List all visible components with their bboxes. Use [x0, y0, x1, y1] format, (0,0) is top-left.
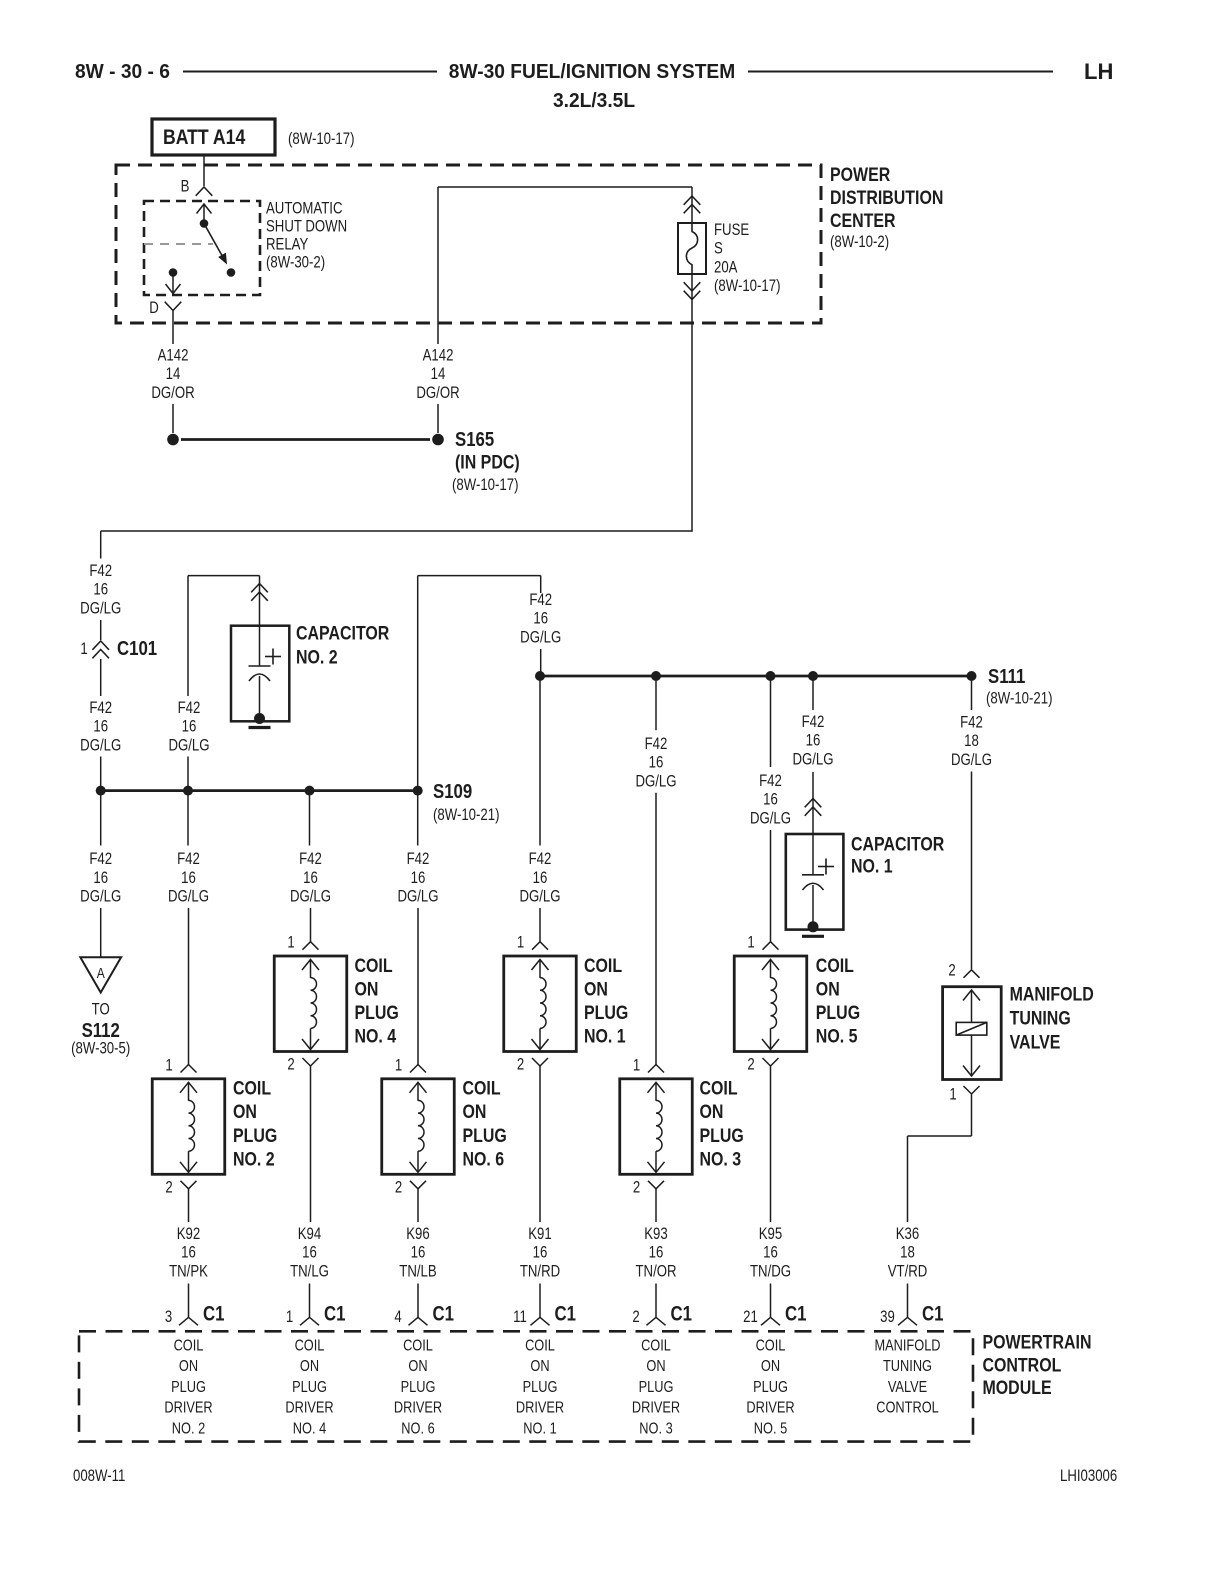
- terminal D connector: [165, 302, 182, 311]
- wire coil1 label to connector: [539, 908, 541, 942]
- svg-text:BATT A14: BATT A14: [163, 126, 245, 150]
- svg-text:16: 16: [533, 1243, 548, 1262]
- wire S109 to coil4 label: [309, 791, 311, 846]
- svg-text:K92: K92: [177, 1225, 200, 1244]
- capacitor C1 ground bar: [802, 935, 824, 938]
- splice S165 bus: [181, 438, 430, 441]
- svg-text:(8W-10-21): (8W-10-21): [986, 689, 1053, 708]
- svg-text:COIL: COIL: [700, 1077, 738, 1099]
- wire link up: [417, 576, 419, 791]
- svg-text:2: 2: [632, 1308, 639, 1327]
- svg-text:NO. 5: NO. 5: [754, 1420, 787, 1438]
- wire fuse down: [691, 274, 693, 532]
- svg-text:A142: A142: [423, 346, 454, 365]
- svg-text:16: 16: [93, 580, 108, 599]
- svg-text:16: 16: [181, 868, 196, 887]
- wire S111 to coil3 label: [655, 676, 657, 730]
- svg-text:PLUG: PLUG: [639, 1379, 674, 1397]
- connector C1 pin 4: [409, 1317, 428, 1325]
- svg-text:DG/LG: DG/LG: [520, 628, 561, 647]
- fuse input double chevron: [684, 196, 701, 205]
- coil on plug no. 4 winding: [310, 960, 312, 978]
- coil on plug no. 3 box: [620, 1079, 693, 1175]
- coil on plug no. 4 pin 2 connector: [303, 1058, 319, 1066]
- wire coil5 label to connector: [770, 830, 772, 942]
- MTV pin 1 connector: [964, 1086, 980, 1094]
- svg-text:ON: ON: [700, 1101, 724, 1123]
- wire coil2 out: [188, 1189, 190, 1222]
- svg-text:VALVE: VALVE: [888, 1379, 928, 1397]
- svg-text:K91: K91: [528, 1225, 551, 1244]
- svg-text:DRIVER: DRIVER: [746, 1399, 794, 1417]
- svg-text:VT/RD: VT/RD: [888, 1262, 928, 1281]
- battery feed BATT A14 box: [152, 119, 275, 155]
- svg-text:A142: A142: [158, 346, 189, 365]
- svg-text:DG/LG: DG/LG: [792, 750, 833, 769]
- svg-text:K93: K93: [644, 1225, 667, 1244]
- svg-text:1: 1: [949, 1085, 956, 1104]
- svg-text:1: 1: [633, 1056, 640, 1075]
- svg-text:16: 16: [93, 868, 108, 887]
- coil on plug no. 3 pin 1 connector: [648, 1065, 664, 1073]
- svg-text:D: D: [149, 299, 159, 318]
- svg-text:F42: F42: [89, 699, 112, 718]
- svg-text:NO. 4: NO. 4: [355, 1025, 397, 1047]
- splice S165 dot right: [432, 434, 444, 446]
- svg-text:DG/LG: DG/LG: [80, 599, 121, 618]
- svg-text:TO: TO: [92, 1000, 110, 1019]
- svg-text:CONTROL: CONTROL: [876, 1399, 939, 1417]
- powertrain control module dashed box: [79, 1331, 973, 1441]
- relay pin dot upper: [200, 219, 209, 228]
- power distribution center dashed box: [116, 165, 821, 323]
- svg-text:PLUG: PLUG: [753, 1379, 788, 1397]
- svg-text:1: 1: [747, 933, 754, 952]
- svg-text:39: 39: [880, 1308, 895, 1327]
- svg-text:ON: ON: [355, 978, 379, 1000]
- coil on plug no. 5 box: [734, 956, 807, 1052]
- capacitor C2 ground bar: [249, 726, 271, 729]
- svg-text:18: 18: [964, 732, 979, 751]
- capacitor C1 element: [812, 834, 814, 875]
- relay actuator link gray dashed: [144, 243, 213, 245]
- svg-text:B: B: [181, 177, 190, 196]
- wire capacitor2 riser: [187, 576, 189, 696]
- svg-text:F42: F42: [960, 713, 983, 732]
- svg-text:C101: C101: [117, 637, 157, 660]
- svg-text:NO. 6: NO. 6: [401, 1420, 434, 1438]
- svg-text:MANIFOLD: MANIFOLD: [1010, 983, 1094, 1005]
- svg-text:S112: S112: [82, 1019, 120, 1042]
- wire top horizontal to fuse: [438, 186, 692, 188]
- wire down from top node: [437, 187, 439, 344]
- svg-text:LHI03006: LHI03006: [1060, 1467, 1117, 1486]
- automatic shut down relay dashed box: [144, 201, 260, 295]
- svg-text:14: 14: [166, 365, 181, 384]
- svg-text:A: A: [97, 965, 106, 982]
- svg-text:1: 1: [165, 1056, 172, 1075]
- svg-text:K36: K36: [896, 1225, 919, 1244]
- svg-text:TUNING: TUNING: [1010, 1007, 1071, 1029]
- svg-text:DG/LG: DG/LG: [397, 887, 438, 906]
- wire into PCM pin 2: [655, 1284, 657, 1318]
- wire capacitor2 riser into S109: [187, 757, 189, 791]
- svg-text:LH: LH: [1084, 59, 1113, 84]
- wire down left margin: [100, 531, 102, 559]
- svg-text:F42: F42: [759, 772, 782, 791]
- svg-text:COIL: COIL: [233, 1077, 271, 1099]
- svg-text:VALVE: VALVE: [1010, 1031, 1061, 1053]
- svg-text:PLUG: PLUG: [700, 1124, 744, 1146]
- capacitor1 double chevron: [805, 799, 822, 808]
- wire S109 to coil2 label: [187, 791, 189, 846]
- svg-text:(8W-30-5): (8W-30-5): [71, 1039, 130, 1058]
- header rule left: [183, 71, 437, 73]
- svg-text:S109: S109: [433, 780, 472, 803]
- svg-text:16: 16: [649, 1243, 664, 1262]
- svg-text:NO. 6: NO. 6: [463, 1148, 505, 1170]
- svg-text:2: 2: [517, 1055, 524, 1074]
- svg-text:COIL: COIL: [174, 1337, 204, 1355]
- svg-text:DG/LG: DG/LG: [80, 887, 121, 906]
- relay coil pin arrow: [203, 205, 205, 223]
- splice S165 dot left: [167, 434, 179, 446]
- svg-text:CENTER: CENTER: [830, 210, 896, 232]
- svg-text:16: 16: [533, 868, 548, 887]
- svg-text:16: 16: [303, 868, 318, 887]
- svg-text:F42: F42: [178, 699, 201, 718]
- splice S111 dots: [535, 671, 545, 681]
- svg-text:ON: ON: [530, 1358, 549, 1376]
- svg-text:COIL: COIL: [641, 1337, 671, 1355]
- wire capacitor2 top across: [188, 575, 260, 577]
- relay contact dot lower right: [227, 268, 236, 277]
- svg-text:PLUG: PLUG: [584, 1002, 628, 1024]
- svg-text:21: 21: [743, 1308, 758, 1327]
- wire coil6 label to connector: [417, 908, 419, 1065]
- relay contact dot lower left: [169, 268, 178, 277]
- wire S109 to coil6 label: [417, 791, 419, 846]
- svg-text:K95: K95: [759, 1225, 782, 1244]
- svg-text:3.2L/3.5L: 3.2L/3.5L: [553, 90, 635, 112]
- svg-text:DRIVER: DRIVER: [394, 1399, 442, 1417]
- svg-text:TN/OR: TN/OR: [635, 1262, 676, 1281]
- wire S111 to coil1 label: [539, 676, 541, 846]
- svg-text:16: 16: [93, 717, 108, 736]
- svg-text:COIL: COIL: [295, 1337, 325, 1355]
- connector C1 pin 3: [179, 1317, 198, 1325]
- svg-text:MODULE: MODULE: [983, 1377, 1052, 1399]
- wire capacitor2 drop: [259, 576, 261, 626]
- svg-text:ON: ON: [179, 1358, 198, 1376]
- wire S111 to MTV label: [971, 676, 973, 710]
- svg-text:AUTOMATIC: AUTOMATIC: [266, 199, 343, 218]
- connector C1 pin 1: [300, 1317, 319, 1325]
- coil on plug no. 5 pin 2 connector: [763, 1058, 779, 1066]
- svg-text:4: 4: [394, 1308, 401, 1327]
- svg-text:2: 2: [633, 1178, 640, 1197]
- svg-text:16: 16: [533, 609, 548, 628]
- wire coil3 out: [655, 1189, 657, 1222]
- connector C1 pin 2: [647, 1317, 666, 1325]
- svg-text:DG/LG: DG/LG: [168, 887, 209, 906]
- svg-text:ON: ON: [408, 1358, 427, 1376]
- coil on plug no. 1 box: [504, 956, 577, 1052]
- svg-text:TN/DG: TN/DG: [750, 1262, 791, 1281]
- wire coil5 out: [770, 1066, 772, 1222]
- svg-text:C1: C1: [433, 1303, 455, 1326]
- MTV pin 2 connector: [964, 970, 980, 978]
- svg-text:C1: C1: [324, 1303, 346, 1326]
- svg-text:DG/OR: DG/OR: [151, 383, 194, 402]
- svg-text:F42: F42: [529, 850, 552, 869]
- svg-text:(8W-10-17): (8W-10-17): [288, 130, 355, 149]
- svg-text:16: 16: [649, 753, 664, 772]
- svg-text:PLUG: PLUG: [233, 1124, 277, 1146]
- svg-text:PLUG: PLUG: [355, 1002, 399, 1024]
- svg-text:K96: K96: [406, 1225, 429, 1244]
- svg-text:16: 16: [411, 868, 426, 887]
- svg-text:DG/LG: DG/LG: [519, 887, 560, 906]
- coil on plug no. 5 pin 1 connector: [763, 942, 779, 950]
- svg-text:2: 2: [747, 1055, 754, 1074]
- manifold tuning valve box: [943, 987, 1002, 1080]
- wire capacitor1 stub: [812, 676, 814, 710]
- svg-text:PLUG: PLUG: [816, 1002, 860, 1024]
- svg-text:TN/LB: TN/LB: [399, 1262, 436, 1281]
- svg-text:16: 16: [763, 1243, 778, 1262]
- svg-text:F42: F42: [529, 591, 552, 610]
- splice S109 dots: [96, 786, 106, 796]
- wire relay D down: [172, 311, 174, 344]
- svg-text:DG/LG: DG/LG: [635, 772, 676, 791]
- svg-text:NO. 4: NO. 4: [293, 1420, 326, 1438]
- coil on plug no. 4 pin 1 connector: [303, 942, 319, 950]
- svg-text:F42: F42: [89, 562, 112, 581]
- coil on plug no. 6 pin 1 connector: [410, 1065, 426, 1073]
- wire BATT to relay terminal B: [203, 155, 205, 186]
- wire to S165 left: [172, 404, 174, 433]
- capacitor C1 box: [786, 834, 844, 930]
- manifold tuning valve element: [971, 991, 973, 1023]
- svg-text:NO. 2: NO. 2: [172, 1420, 205, 1438]
- svg-text:C1: C1: [203, 1303, 225, 1326]
- header rule right: [748, 71, 1053, 73]
- svg-text:PLUG: PLUG: [171, 1379, 206, 1397]
- wire coil4 out: [310, 1066, 312, 1222]
- wire coil4 label to connector: [310, 908, 312, 942]
- svg-text:F42: F42: [299, 850, 322, 869]
- svg-text:PLUG: PLUG: [463, 1124, 507, 1146]
- svg-text:NO. 1: NO. 1: [523, 1420, 556, 1438]
- svg-text:16: 16: [411, 1243, 426, 1262]
- connector C1 pin 11: [531, 1317, 550, 1325]
- coil on plug no. 1 pin 1 connector: [532, 942, 548, 950]
- svg-text:CONTROL: CONTROL: [983, 1354, 1062, 1376]
- svg-text:ON: ON: [816, 978, 840, 1000]
- svg-text:11: 11: [513, 1308, 527, 1327]
- fuse output double chevron: [684, 282, 701, 291]
- svg-text:PLUG: PLUG: [523, 1379, 558, 1397]
- svg-text:S165: S165: [455, 428, 494, 451]
- connector C101: [92, 641, 109, 650]
- svg-text:S: S: [714, 239, 723, 258]
- wire fuse output across: [101, 530, 692, 532]
- wire S109 to A: [100, 791, 102, 846]
- coil on plug no. 1 winding: [539, 960, 541, 978]
- svg-text:ON: ON: [463, 1101, 487, 1123]
- svg-text:TN/RD: TN/RD: [520, 1262, 561, 1281]
- svg-text:POWERTRAIN: POWERTRAIN: [983, 1331, 1092, 1353]
- svg-text:8W - 30 - 6: 8W - 30 - 6: [75, 61, 170, 83]
- svg-text:COIL: COIL: [463, 1077, 501, 1099]
- coil on plug no. 2 box: [152, 1079, 225, 1175]
- svg-text:F42: F42: [177, 850, 200, 869]
- fuse S 20A box: [678, 223, 706, 274]
- coil on plug no. 5 winding: [770, 960, 772, 978]
- wire capacitor1 drop: [812, 772, 814, 834]
- capacitor C2 element: [259, 626, 261, 666]
- wire into PCM pin 21: [770, 1284, 772, 1318]
- svg-text:2: 2: [395, 1178, 402, 1197]
- svg-text:TN/LG: TN/LG: [290, 1262, 329, 1281]
- svg-text:COIL: COIL: [756, 1337, 786, 1355]
- svg-text:ON: ON: [300, 1358, 319, 1376]
- coil on plug no. 1 pin 2 connector: [532, 1058, 548, 1066]
- coil on plug no. 2 pin 2 connector: [181, 1181, 197, 1189]
- coil on plug no. 6 winding: [417, 1083, 419, 1101]
- wire into PCM pin 4: [417, 1284, 419, 1318]
- wire into triangle: [100, 908, 102, 957]
- svg-text:(8W-30-2): (8W-30-2): [266, 253, 325, 272]
- svg-text:COIL: COIL: [584, 954, 622, 976]
- coil on plug no. 2 pin 1 connector: [181, 1065, 197, 1073]
- svg-text:CAPACITOR: CAPACITOR: [851, 833, 945, 855]
- capacitor C2 ground dot: [254, 713, 265, 724]
- svg-text:S111: S111: [988, 665, 1025, 688]
- svg-text:18: 18: [900, 1243, 915, 1262]
- svg-text:NO. 5: NO. 5: [816, 1025, 858, 1047]
- svg-text:2: 2: [287, 1055, 294, 1074]
- svg-text:16: 16: [182, 717, 197, 736]
- svg-text:F42: F42: [645, 735, 668, 754]
- wire coil2 label to connector: [188, 908, 190, 1065]
- svg-text:(8W-10-2): (8W-10-2): [830, 233, 889, 252]
- relay output pin arrow: [172, 273, 174, 292]
- svg-text:DG/LG: DG/LG: [750, 809, 791, 828]
- svg-text:(IN PDC): (IN PDC): [455, 451, 520, 473]
- svg-text:1: 1: [80, 640, 87, 659]
- svg-text:008W-11: 008W-11: [73, 1467, 125, 1486]
- svg-text:SHUT DOWN: SHUT DOWN: [266, 217, 347, 236]
- svg-text:16: 16: [806, 731, 821, 750]
- wire link into S111: [540, 649, 542, 676]
- off-page triangle A: [80, 957, 121, 992]
- svg-text:ON: ON: [761, 1358, 780, 1376]
- wire into PCM pin 3: [188, 1284, 190, 1318]
- svg-text:F42: F42: [89, 850, 112, 869]
- svg-text:14: 14: [431, 365, 446, 384]
- coil on plug no. 6 box: [382, 1079, 455, 1175]
- svg-text:DG/LG: DG/LG: [168, 736, 209, 755]
- wire MTV out: [971, 1095, 973, 1137]
- svg-text:COIL: COIL: [403, 1337, 433, 1355]
- svg-text:NO. 3: NO. 3: [700, 1148, 742, 1170]
- svg-text:FUSE: FUSE: [714, 221, 749, 240]
- capacitor2 double chevron: [251, 584, 268, 593]
- svg-text:1: 1: [517, 933, 524, 952]
- coil on plug no. 3 winding: [655, 1083, 657, 1101]
- svg-text:3: 3: [165, 1308, 172, 1327]
- svg-text:ON: ON: [233, 1101, 257, 1123]
- svg-text:MANIFOLD: MANIFOLD: [874, 1337, 940, 1355]
- svg-text:ON: ON: [646, 1358, 665, 1376]
- svg-text:F42: F42: [407, 850, 430, 869]
- svg-text:1: 1: [395, 1056, 402, 1075]
- coil on plug no. 3 pin 2 connector: [648, 1181, 664, 1189]
- svg-text:TN/PK: TN/PK: [169, 1262, 208, 1281]
- svg-text:DG/LG: DG/LG: [290, 887, 331, 906]
- svg-text:C1: C1: [671, 1303, 693, 1326]
- splice S111 bus: [540, 675, 972, 678]
- svg-text:PLUG: PLUG: [292, 1379, 327, 1397]
- svg-text:PLUG: PLUG: [401, 1379, 436, 1397]
- wire into fuse: [691, 187, 693, 223]
- svg-text:DG/LG: DG/LG: [951, 750, 992, 769]
- wire MTV label to connector: [971, 772, 973, 970]
- svg-text:1: 1: [286, 1308, 293, 1327]
- svg-text:C1: C1: [922, 1303, 944, 1326]
- svg-text:COIL: COIL: [816, 954, 854, 976]
- svg-text:C1: C1: [785, 1303, 807, 1326]
- wire to S165 right: [437, 404, 439, 433]
- wire coil3 label to connector: [655, 793, 657, 1065]
- svg-text:NO. 1: NO. 1: [851, 855, 893, 877]
- svg-text:NO. 3: NO. 3: [639, 1420, 672, 1438]
- svg-text:DRIVER: DRIVER: [516, 1399, 564, 1417]
- svg-text:16: 16: [763, 790, 778, 809]
- wire link across: [418, 575, 541, 577]
- wire coil1 out: [539, 1066, 541, 1222]
- svg-text:2: 2: [165, 1178, 172, 1197]
- wire link down: [540, 576, 542, 593]
- svg-text:F42: F42: [802, 713, 825, 732]
- wire coil6 out: [417, 1189, 419, 1222]
- svg-text:DRIVER: DRIVER: [164, 1399, 212, 1417]
- splice S109 bus: [101, 789, 418, 792]
- svg-text:NO. 1: NO. 1: [584, 1025, 626, 1047]
- wire into PCM pin 1: [309, 1284, 311, 1318]
- connector C1 pin 39: [898, 1317, 917, 1325]
- svg-text:20A: 20A: [714, 258, 738, 277]
- svg-text:RELAY: RELAY: [266, 235, 308, 254]
- capacitor C1 ground dot: [808, 921, 819, 932]
- coil on plug no. 6 pin 2 connector: [410, 1181, 426, 1189]
- svg-text:ON: ON: [584, 978, 608, 1000]
- svg-text:DG/OR: DG/OR: [416, 383, 459, 402]
- svg-text:NO. 2: NO. 2: [296, 646, 338, 668]
- coil on plug no. 4 box: [274, 956, 347, 1052]
- svg-text:POWER: POWER: [830, 164, 891, 186]
- svg-text:(8W-10-21): (8W-10-21): [433, 806, 500, 825]
- svg-text:8W-30 FUEL/IGNITION SYSTEM: 8W-30 FUEL/IGNITION SYSTEM: [449, 61, 735, 83]
- wire into PCM pin 39: [907, 1284, 909, 1318]
- svg-text:NO. 2: NO. 2: [233, 1148, 275, 1170]
- wire S111 to coil5 label: [770, 676, 772, 767]
- svg-text:1: 1: [287, 933, 294, 952]
- wire below C101: [100, 659, 102, 696]
- svg-text:K94: K94: [298, 1225, 321, 1244]
